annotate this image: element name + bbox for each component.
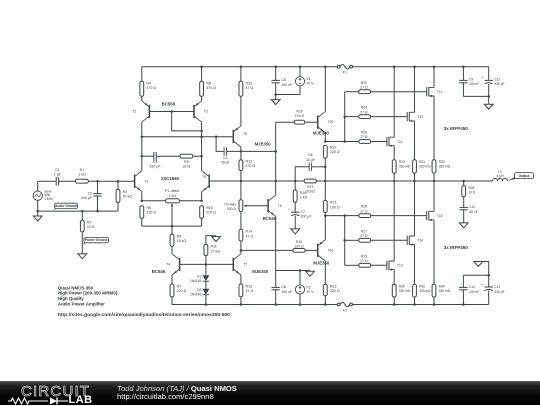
svg-text:27 kΩ: 27 kΩ bbox=[211, 249, 221, 253]
svg-text:T2: T2 bbox=[132, 110, 136, 114]
svg-text:R31: R31 bbox=[419, 160, 425, 164]
svg-text:200 pF: 200 pF bbox=[81, 196, 93, 200]
svg-text:27 Ω: 27 Ω bbox=[360, 135, 368, 139]
svg-text:10 Ω: 10 Ω bbox=[87, 225, 95, 229]
svg-text:330 mΩ: 330 mΩ bbox=[439, 165, 451, 169]
svg-text:R3: R3 bbox=[123, 190, 128, 194]
svg-text:330 mΩ: 330 mΩ bbox=[419, 289, 431, 293]
svg-text:C2: C2 bbox=[88, 191, 93, 195]
svg-text:33 kΩ: 33 kΩ bbox=[306, 189, 315, 193]
svg-text:http://sites.google.com/site/q: http://sites.google.com/site/quasisdiyau… bbox=[58, 312, 231, 317]
svg-text:D2: D2 bbox=[197, 288, 201, 292]
svg-text:T12: T12 bbox=[417, 115, 423, 119]
svg-text:47 Ω: 47 Ω bbox=[246, 86, 254, 90]
svg-text:1 kHz: 1 kHz bbox=[44, 197, 53, 201]
svg-text:T13: T13 bbox=[397, 264, 403, 268]
svg-text:470 Ω: 470 Ω bbox=[146, 86, 156, 90]
svg-text:470 Ω: 470 Ω bbox=[246, 164, 256, 168]
svg-text:18 kΩ: 18 kΩ bbox=[177, 239, 187, 243]
svg-text:F2: F2 bbox=[343, 308, 347, 312]
svg-text:R16: R16 bbox=[296, 110, 302, 114]
svg-text:R12: R12 bbox=[246, 82, 253, 86]
svg-text:R23: R23 bbox=[361, 254, 367, 258]
svg-text:220 Ω: 220 Ω bbox=[206, 211, 216, 215]
svg-text:220 Ω: 220 Ω bbox=[146, 211, 156, 215]
svg-text:330 µF: 330 µF bbox=[494, 82, 504, 86]
svg-text:4 µH: 4 µH bbox=[496, 174, 504, 178]
svg-text:P1-offset: P1-offset bbox=[165, 189, 179, 193]
svg-text:C13: C13 bbox=[494, 285, 500, 289]
svg-text:68 nF: 68 nF bbox=[469, 210, 477, 214]
svg-text:27 Ω: 27 Ω bbox=[360, 209, 368, 213]
svg-text:C12: C12 bbox=[469, 285, 475, 289]
svg-text:R10: R10 bbox=[206, 206, 213, 210]
svg-text:47 Ω: 47 Ω bbox=[246, 234, 254, 238]
svg-text:C4: C4 bbox=[223, 156, 227, 160]
svg-text:2SC1845: 2SC1845 bbox=[161, 176, 180, 181]
svg-text:1N4148: 1N4148 bbox=[190, 293, 201, 297]
svg-text:330 mΩ: 330 mΩ bbox=[439, 289, 451, 293]
svg-text:L1: L1 bbox=[498, 170, 502, 174]
svg-text:R14: R14 bbox=[246, 230, 253, 234]
svg-text:47 Ω: 47 Ω bbox=[246, 289, 254, 293]
svg-text:10 µF: 10 µF bbox=[306, 158, 315, 162]
svg-text:R22: R22 bbox=[330, 146, 337, 150]
svg-text:R18: R18 bbox=[300, 191, 307, 195]
svg-text:BC546: BC546 bbox=[152, 269, 166, 274]
svg-text:Output: Output bbox=[518, 174, 530, 178]
svg-text:200 Ω: 200 Ω bbox=[227, 207, 237, 211]
svg-text:330 pF: 330 pF bbox=[149, 164, 161, 168]
svg-text:R9: R9 bbox=[184, 160, 189, 164]
svg-text:T9: T9 bbox=[202, 175, 206, 179]
svg-text:R30: R30 bbox=[399, 285, 405, 289]
svg-text:R17: R17 bbox=[307, 185, 313, 189]
svg-text:Power Ground: Power Ground bbox=[85, 238, 108, 242]
svg-text:R24: R24 bbox=[361, 106, 367, 110]
svg-text:1N4148: 1N4148 bbox=[190, 279, 201, 283]
svg-text:C5: C5 bbox=[281, 78, 286, 82]
svg-text:27 Ω: 27 Ω bbox=[360, 259, 368, 263]
svg-text:100 nF: 100 nF bbox=[281, 83, 293, 87]
svg-text:Audio Ground: Audio Ground bbox=[55, 204, 77, 208]
svg-text:1 µF: 1 µF bbox=[54, 172, 62, 176]
svg-text:T20: T20 bbox=[328, 120, 334, 124]
svg-text:R2: R2 bbox=[87, 220, 92, 224]
svg-text:R6: R6 bbox=[206, 82, 211, 86]
svg-text:1 kΩ: 1 kΩ bbox=[168, 194, 176, 198]
svg-text:R28: R28 bbox=[468, 186, 474, 190]
svg-text:R11: R11 bbox=[211, 245, 217, 249]
svg-text:39 pF: 39 pF bbox=[221, 161, 230, 165]
svg-text:Quasi NMOS 350: Quasi NMOS 350 bbox=[58, 285, 94, 290]
svg-text:100 Ω: 100 Ω bbox=[295, 114, 305, 118]
svg-text:T7: T7 bbox=[243, 262, 247, 266]
svg-text:T11: T11 bbox=[397, 140, 403, 144]
svg-text:R4: R4 bbox=[146, 82, 151, 86]
svg-text:R7: R7 bbox=[177, 284, 182, 288]
svg-text:+: + bbox=[288, 208, 290, 212]
svg-text:10 Ω: 10 Ω bbox=[468, 191, 476, 195]
svg-text:V1: V1 bbox=[306, 77, 310, 81]
svg-text:330 mΩ: 330 mΩ bbox=[399, 289, 411, 293]
svg-text:330 µF: 330 µF bbox=[494, 290, 504, 294]
svg-text:R13: R13 bbox=[246, 159, 253, 163]
svg-text:P2-bias: P2-bias bbox=[225, 202, 237, 206]
svg-text:330 mΩ: 330 mΩ bbox=[419, 165, 431, 169]
svg-text:R21: R21 bbox=[330, 201, 337, 205]
svg-text:T1: T1 bbox=[145, 179, 149, 183]
svg-text:C3: C3 bbox=[153, 160, 158, 164]
svg-text:R33: R33 bbox=[439, 160, 445, 164]
svg-text:R23: R23 bbox=[330, 285, 337, 289]
svg-text:27 Ω: 27 Ω bbox=[360, 234, 368, 238]
svg-text:C10: C10 bbox=[469, 205, 475, 209]
svg-text:220 Ω: 220 Ω bbox=[330, 150, 340, 154]
svg-text:T14: T14 bbox=[417, 239, 423, 243]
svg-text:100 µF: 100 µF bbox=[300, 215, 312, 219]
svg-text:T3: T3 bbox=[204, 110, 208, 114]
svg-text:20 kΩ: 20 kΩ bbox=[123, 195, 133, 199]
svg-text:C7: C7 bbox=[300, 210, 305, 214]
svg-text:MJE340: MJE340 bbox=[313, 130, 330, 135]
svg-text:3x IRFP450: 3x IRFP450 bbox=[444, 245, 469, 250]
svg-text:T4: T4 bbox=[166, 262, 170, 266]
svg-text:BC556: BC556 bbox=[162, 102, 176, 107]
svg-text:C1: C1 bbox=[55, 168, 60, 172]
svg-text:100 Ω: 100 Ω bbox=[294, 245, 304, 249]
svg-text:220 Ω: 220 Ω bbox=[177, 289, 187, 293]
svg-text:T10: T10 bbox=[328, 248, 334, 252]
svg-text:T10: T10 bbox=[437, 90, 443, 94]
svg-text:27 Ω: 27 Ω bbox=[360, 85, 368, 89]
svg-text:R1: R1 bbox=[80, 168, 85, 172]
svg-text:MJE340: MJE340 bbox=[252, 269, 269, 274]
svg-text:+: + bbox=[482, 283, 484, 287]
svg-text:100 nF: 100 nF bbox=[469, 82, 479, 86]
svg-text:100 nF: 100 nF bbox=[469, 290, 479, 294]
svg-text:70 V: 70 V bbox=[306, 82, 314, 86]
svg-text:C8: C8 bbox=[308, 153, 312, 157]
svg-text:R19: R19 bbox=[296, 240, 302, 244]
svg-text:MJE350: MJE350 bbox=[255, 142, 272, 147]
svg-text:BC546: BC546 bbox=[263, 216, 277, 221]
svg-text:100 nF: 100 nF bbox=[281, 290, 293, 294]
svg-text:R15: R15 bbox=[246, 284, 253, 288]
svg-text:C9: C9 bbox=[469, 77, 473, 81]
svg-text:F1: F1 bbox=[343, 71, 347, 75]
svg-text:1 kΩ: 1 kΩ bbox=[300, 196, 308, 200]
svg-text:R34: R34 bbox=[439, 285, 445, 289]
svg-text:27 Ω: 27 Ω bbox=[360, 110, 368, 114]
svg-text:1 kΩ: 1 kΩ bbox=[78, 172, 86, 176]
svg-text:High Quality: High Quality bbox=[58, 296, 84, 301]
svg-text:C11: C11 bbox=[494, 77, 500, 81]
svg-text:High Power (200-350 WRMS): High Power (200-350 WRMS) bbox=[58, 291, 118, 296]
svg-text:R26: R26 bbox=[361, 131, 367, 135]
svg-text:R32: R32 bbox=[419, 285, 425, 289]
svg-text:3x IRFP450: 3x IRFP450 bbox=[444, 126, 469, 131]
svg-text:T16: T16 bbox=[437, 214, 443, 218]
svg-text:470 Ω: 470 Ω bbox=[206, 86, 216, 90]
svg-text:330 mΩ: 330 mΩ bbox=[399, 165, 411, 169]
svg-text:R5: R5 bbox=[177, 235, 182, 239]
svg-text:D1: D1 bbox=[197, 275, 201, 279]
svg-text:T6: T6 bbox=[243, 132, 247, 136]
svg-text:MJE350: MJE350 bbox=[313, 260, 330, 265]
svg-text:V2: V2 bbox=[306, 285, 310, 289]
svg-text:R29: R29 bbox=[399, 160, 405, 164]
svg-text:R27: R27 bbox=[361, 229, 367, 233]
svg-text:R8: R8 bbox=[146, 206, 151, 210]
svg-text:100 Ω: 100 Ω bbox=[330, 205, 340, 209]
svg-text:Audio Power Amplifier: Audio Power Amplifier bbox=[58, 301, 105, 306]
svg-text:33 Ω: 33 Ω bbox=[183, 164, 191, 168]
svg-text:220 Ω: 220 Ω bbox=[330, 289, 340, 293]
svg-text:T8: T8 bbox=[278, 204, 282, 208]
svg-text:R25: R25 bbox=[361, 205, 367, 209]
svg-text:+: + bbox=[482, 76, 484, 80]
svg-text:R20: R20 bbox=[361, 81, 367, 85]
svg-text:70 V: 70 V bbox=[306, 290, 314, 294]
svg-text:C6: C6 bbox=[281, 285, 286, 289]
